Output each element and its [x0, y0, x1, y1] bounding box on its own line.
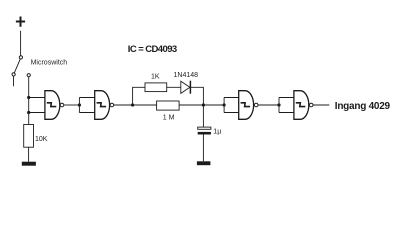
svg-text:1µ: 1µ: [213, 128, 221, 135]
svg-text:Ingang 4029: Ingang 4029: [335, 101, 391, 112]
svg-text:Microswitch: Microswitch: [31, 60, 68, 67]
svg-text:1K: 1K: [151, 73, 160, 80]
svg-text:10K: 10K: [35, 136, 48, 143]
svg-text:IC = CD4093: IC = CD4093: [128, 44, 177, 55]
svg-text:1 M: 1 M: [163, 115, 175, 122]
svg-text:1N4148: 1N4148: [174, 72, 199, 79]
